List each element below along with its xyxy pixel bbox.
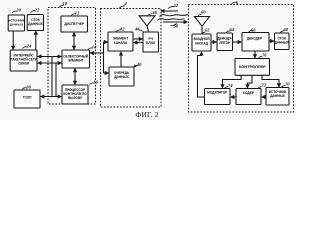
- wire bus to channel element: [104, 41, 108, 43]
- svg-text:76: 76: [262, 53, 267, 58]
- ref 62: [202, 32, 205, 34]
- ref 64: [226, 31, 230, 33]
- ref 44: [139, 30, 144, 32]
- box RF unit 44: [143, 32, 159, 52]
- svg-text:22: 22: [34, 7, 40, 12]
- svg-text:66: 66: [251, 27, 256, 32]
- junction dot bus-selector: [103, 52, 105, 54]
- svg-text:МОДУЛЯТОР: МОДУЛЯТОР: [207, 90, 228, 94]
- svg-text:46: 46: [151, 10, 157, 15]
- wire bus to selector: [90, 52, 103, 54]
- wire interface - selector upper: [38, 56, 62, 58]
- box scheduler 12: [61, 16, 88, 32]
- wire scheduler - selector: [73, 33, 75, 50]
- squiggle upper: [160, 15, 189, 17]
- svg-text:52: 52: [174, 3, 179, 8]
- ref 16: [90, 83, 95, 85]
- svg-text:14: 14: [92, 44, 97, 49]
- wire modulator to front end: [198, 52, 205, 97]
- ref 60: [198, 14, 201, 16]
- wire demodulator to decoder: [233, 41, 242, 43]
- ref 12: [71, 14, 76, 16]
- wire PSTN - processor: [41, 96, 62, 98]
- svg-text:ОЧЕРЕДЬДАННЫХ: ОЧЕРЕДЬДАННЫХ: [114, 71, 130, 79]
- box controller 76: [235, 59, 270, 76]
- antenna 60: [195, 17, 210, 27]
- wire front end to demodulator: [211, 41, 216, 43]
- arrow reverse link 52: [161, 10, 178, 12]
- arrow forward link 50: [163, 21, 187, 23]
- ref 6: [231, 2, 237, 4]
- svg-text:ВХОДНОЙКАСКАД: ВХОДНОЙКАСКАД: [194, 37, 211, 45]
- ref 20: [12, 11, 17, 13]
- svg-text:6: 6: [236, 0, 239, 5]
- box packet network interface 24: [10, 50, 37, 71]
- ref 22: [31, 11, 36, 13]
- svg-text:44: 44: [134, 27, 140, 32]
- ref 66: [249, 30, 253, 32]
- svg-text:70: 70: [285, 81, 290, 86]
- wire controller to encoder: [248, 75, 253, 88]
- ref 40: [134, 66, 138, 68]
- wire data queue to channel element: [120, 52, 122, 67]
- ref 52: [168, 6, 175, 8]
- svg-text:ТСОП: ТСОП: [23, 96, 33, 100]
- ref 72: [258, 87, 262, 89]
- wire vertical bus x56: [55, 63, 57, 97]
- box modulator 74: [205, 89, 231, 105]
- box selector element 14: [62, 50, 90, 68]
- svg-text:24: 24: [26, 43, 32, 48]
- svg-text:ДЕМОДУ-ЛЯТОР: ДЕМОДУ-ЛЯТОР: [217, 37, 232, 45]
- svg-text:72: 72: [262, 82, 267, 87]
- wire selector - processor: [74, 69, 76, 85]
- svg-text:62: 62: [205, 27, 210, 32]
- ref 30: [22, 88, 27, 90]
- box channel element 42: [108, 32, 133, 51]
- svg-text:12: 12: [75, 10, 80, 15]
- wire vertical bus x52: [51, 57, 53, 97]
- dashed box remote station 6: [189, 5, 294, 113]
- ref 74: [225, 87, 229, 89]
- svg-text:68: 68: [284, 27, 289, 32]
- ref 10: [59, 5, 64, 7]
- svg-text:60: 60: [201, 10, 206, 15]
- wire bus to data queue: [104, 72, 109, 74]
- svg-text:64: 64: [230, 27, 235, 32]
- svg-text:ИСТОЧНИКДАННЫХ: ИСТОЧНИКДАННЫХ: [269, 90, 287, 98]
- svg-text:42: 42: [119, 26, 125, 31]
- ref 14: [88, 48, 93, 50]
- box call control processor 16: [62, 85, 88, 104]
- wire RF to channel element lower: [134, 42, 143, 44]
- wire selector bus x103.5: [103, 42, 105, 73]
- ref 68: [280, 31, 284, 33]
- svg-text:74: 74: [228, 83, 233, 88]
- wire antenna60 to front end: [201, 26, 203, 34]
- squiggle lower: [158, 19, 185, 21]
- ref 70: [282, 86, 286, 88]
- antenna 46: [139, 16, 155, 26]
- wire encoder to modulator: [231, 96, 236, 98]
- wire antenna46 to RF unit: [147, 26, 149, 32]
- svg-text:4: 4: [124, 1, 128, 6]
- svg-text:16: 16: [93, 79, 98, 84]
- ref 46: [148, 14, 152, 16]
- ref 24: [23, 47, 28, 49]
- wire decoder to controller: [254, 51, 256, 58]
- box data queue 40: [109, 67, 134, 86]
- wire channel element to RF upper: [134, 38, 143, 40]
- box decoder 66: [242, 33, 269, 52]
- wire controller to data source: [262, 75, 279, 87]
- dashed box base station 4: [101, 9, 162, 108]
- box data source 70: [266, 88, 289, 106]
- svg-text:ИСТОЧНИКДАННЫХ: ИСТОЧНИКДАННЫХ: [8, 19, 24, 27]
- svg-text:КОДЕР: КОДЕР: [243, 91, 255, 95]
- svg-text:20: 20: [15, 8, 21, 13]
- box data sink 68: [275, 33, 290, 50]
- svg-text:50: 50: [174, 23, 179, 28]
- box demodulator 64: [217, 33, 233, 51]
- svg-text:40: 40: [136, 62, 142, 67]
- wire data source 20 to interface: [12, 31, 14, 49]
- box front end 62: [192, 34, 211, 51]
- wire controller to modulator: [223, 75, 242, 88]
- box encoder 72: [236, 89, 261, 105]
- box data sink 22: [27, 15, 43, 31]
- wire interface to data sink 22: [35, 31, 37, 50]
- ref 50: [171, 24, 178, 26]
- wire data source to encoder: [262, 96, 266, 98]
- dashed box BSC 10: [48, 8, 96, 105]
- svg-text:10: 10: [63, 1, 68, 6]
- svg-text:ДИСПЕТЧЕР: ДИСПЕТЧЕР: [64, 22, 85, 26]
- svg-text:КОНТРОЛЛЕР: КОНТРОЛЛЕР: [239, 64, 266, 69]
- ref 4: [119, 6, 125, 9]
- box PSTN 30: [14, 90, 40, 108]
- box data source 20: [8, 15, 24, 31]
- svg-text:30: 30: [25, 84, 31, 89]
- ref 42: [116, 30, 121, 32]
- svg-text:ДЕКОДЕР: ДЕКОДЕР: [247, 36, 263, 40]
- wire decoder to data sink: [269, 40, 274, 42]
- ref 76: [259, 56, 263, 58]
- svg-text:ФИГ. 2: ФИГ. 2: [136, 110, 159, 119]
- wire interface - selector lower: [38, 62, 62, 64]
- svg-text:ЭЛЕМЕНТКАНАЛА: ЭЛЕМЕНТКАНАЛА: [113, 37, 129, 45]
